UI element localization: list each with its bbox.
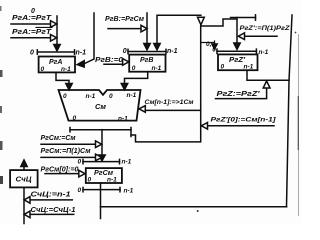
register RgA	[39, 57, 75, 73]
gate RgZ:=RgZ'	[263, 81, 270, 88]
wire sign Sm[n-1] to RgZ'[0]	[131, 26, 201, 142]
gate SchC:=n-1	[24, 197, 30, 204]
gate sign-line top	[198, 17, 205, 25]
wire control stub RgZ':=P(1)RgZ	[245, 35, 278, 37]
wire into RgB rail left	[146, 13, 148, 44]
svg-text:РгСм[0]:=0: РгСм[0]:=0	[41, 166, 79, 173]
wire control stub RgSm:=P(1)Sm	[41, 156, 96, 158]
wire control stub RgZ'[0]:=Sm[n-1]	[208, 125, 275, 127]
gate RgA:=notRgT	[51, 35, 57, 42]
svg-text:РгВ: РгВ	[140, 57, 153, 64]
bus RgZ right vertical	[287, 15, 293, 207]
svg-text:n-1: n-1	[76, 50, 87, 57]
wire control stub RgZ:=RgZ'	[216, 89, 267, 99]
svg-text:n-1: n-1	[107, 177, 117, 184]
wire control stub SchC:=n-1	[30, 199, 72, 201]
svg-text:n-1: n-1	[167, 48, 178, 55]
svg-text:n-1: n-1	[118, 116, 128, 123]
gate RgB:=0	[104, 63, 123, 65]
wire control stub RgB:=RgSm	[108, 28, 141, 30]
svg-text:См[n-1]:=>1См: См[n-1]:=>1См	[145, 99, 194, 106]
scan specks left edge	[0, 70, 3, 77]
wire RgT input vertical	[56, 16, 58, 45]
wire RgSm output to bus bottom	[101, 206, 287, 208]
svg-text:0: 0	[41, 66, 45, 73]
register RgZ'	[218, 54, 258, 70]
svg-text:0: 0	[78, 187, 82, 194]
svg-text:n-1: n-1	[122, 159, 132, 166]
gate RgA:=RgT	[51, 21, 57, 28]
wire SchC input vertical	[23, 187, 25, 223]
svg-text:РгА: РгА	[49, 59, 62, 66]
svg-text:0: 0	[73, 115, 77, 122]
svg-text:РгZ:=РгZ′: РгZ:=РгZ′	[217, 91, 260, 98]
svg-text:СчЦ:=n-1: СчЦ:=n-1	[31, 192, 71, 199]
svg-text:0: 0	[88, 177, 92, 184]
svg-text:n-1: n-1	[152, 65, 162, 72]
svg-text:0: 0	[63, 93, 67, 100]
svg-text:0: 0	[221, 63, 225, 70]
svg-text:СчЦ: СчЦ	[16, 177, 32, 184]
bus rail RgB input 0..n-1	[128, 51, 166, 53]
gate RgSm:=P(1)Sm	[96, 154, 102, 161]
svg-text:n-1: n-1	[86, 93, 96, 100]
wire Sm output down	[101, 130, 103, 156]
bus rail RgZ' input 0..n-1	[217, 50, 256, 52]
bus rail RgSm output 0..n-1	[83, 189, 120, 191]
bus rail RgSm input 0..n-1	[83, 161, 120, 163]
svg-text:РгСм:=См: РгСм:=См	[41, 135, 77, 142]
bus rail Sm output bracket	[70, 129, 131, 131]
svg-text:РгZ′[0]:=См[n-1]: РгZ′[0]:=См[n-1]	[211, 117, 277, 124]
wire RgB output to adder	[125, 72, 148, 84]
wire control stub Sm[n-1]	[145, 109, 200, 111]
wire control stub RgSm[0]:=0	[45, 173, 79, 175]
wire control stub RgA:=notRgT	[11, 37, 51, 39]
svg-text:n-1: n-1	[124, 187, 134, 194]
gate RgB:=RgSm	[141, 25, 147, 32]
counter SchC	[10, 170, 37, 187]
svg-text:0: 0	[123, 48, 127, 55]
register RgB	[129, 55, 165, 72]
register RgSm	[86, 168, 122, 183]
wire RgZ' feed vertical	[236, 18, 238, 44]
wire control stub RgSm:=Sm	[41, 143, 96, 145]
svg-text:РгВ:=РгСм: РгВ:=РгСм	[105, 16, 145, 23]
svg-text:n-1: n-1	[127, 92, 137, 99]
svg-text:0: 0	[212, 46, 216, 53]
svg-text:n-1: n-1	[61, 66, 71, 73]
wire line A into RgB rail right	[157, 15, 201, 44]
wire RgA output to adder	[56, 72, 69, 84]
svg-text:РгА:=РгТ: РгА:=РгТ	[12, 29, 52, 36]
junction dot	[295, 32, 297, 34]
wire RgT to RgA right side	[84, 13, 94, 64]
wire line C to RgZ' feed	[201, 19, 237, 26]
svg-text:n-1: n-1	[244, 63, 254, 70]
svg-text:0: 0	[132, 65, 136, 72]
wire control stub SchC:=SchC-1	[30, 213, 74, 215]
gate RgSm[0]:=0	[79, 170, 85, 177]
svg-text:0,: 0,	[206, 41, 212, 48]
svg-text:РгСм:=П(1)См: РгСм:=П(1)См	[41, 148, 92, 155]
svg-text:0: 0	[109, 93, 113, 100]
gate SchC:=SchC-1	[24, 211, 30, 218]
svg-text:СчЦ:=СчЦ-1: СчЦ:=СчЦ-1	[31, 207, 76, 214]
wire RgSm output down	[100, 183, 102, 219]
svg-text:0: 0	[78, 159, 82, 166]
wire RgZ' output to bus	[247, 70, 289, 80]
wire top right stub	[231, 17, 256, 19]
svg-text:0: 0	[30, 50, 34, 57]
junction dot bottom	[197, 210, 199, 212]
wire control stub RgA:=RgT	[11, 23, 51, 25]
svg-text:РгА:=РгТ: РгА:=РгТ	[12, 15, 52, 22]
gate RgSm:=Sm	[96, 141, 102, 148]
adder Sm	[59, 90, 141, 121]
svg-text:0: 0	[31, 8, 35, 15]
svg-text:n-1: n-1	[259, 49, 269, 56]
gate RgZ':=P(1)RgZ	[238, 33, 244, 40]
bus rail RgA input 0..n-1	[37, 51, 74, 53]
svg-text:См: См	[95, 104, 107, 111]
wire SchC output up	[23, 166, 25, 170]
svg-text:РгZ′:=П(1)РгZ: РгZ′:=П(1)РгZ	[240, 25, 291, 32]
gate Sm[n-1]	[139, 106, 145, 113]
scan border right	[298, 34, 300, 216]
svg-text:РгВ:=0: РгВ:=0	[95, 57, 123, 64]
gate RgZ'[0]:=Sm[n-1]	[201, 123, 207, 130]
